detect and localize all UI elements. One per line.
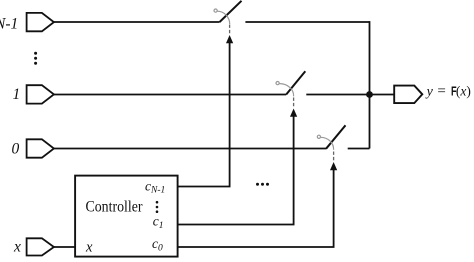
switch S0 dashed control link [333, 152, 335, 161]
wire switch S1 to bus and output [306, 94, 394, 96]
input port 0 [27, 139, 54, 157]
switch S1 control arrow [290, 109, 297, 117]
wire switch S(N-1) to bus [245, 21, 369, 23]
wire controller output cN-1 to switch S(N-1) [178, 42, 230, 187]
wire bus vertical [369, 21, 371, 148]
switch S(N-1) motion arc [217, 11, 229, 24]
svg-text:0: 0 [12, 140, 20, 157]
wire switch S0 to bus [348, 148, 370, 150]
svg-text:x: x [85, 239, 93, 255]
input port x [27, 238, 54, 255]
node: bus junction at output tap [366, 91, 373, 98]
wire controller output c0 to switch S0 [178, 169, 334, 247]
switch S0 motion arc [321, 137, 334, 150]
svg-text:1: 1 [13, 86, 21, 103]
output port y [394, 86, 422, 104]
wire input N-1 to switch S(N-1) [54, 21, 220, 23]
switch S(N-1) control arrow [226, 35, 233, 43]
wire input 0 to switch S0 [54, 148, 327, 150]
switch S1 dashed control link [293, 98, 295, 108]
switch S1 pole circle [276, 82, 279, 85]
vertical ellipsis between inputs [34, 52, 37, 65]
svg-text:=: = [437, 83, 445, 99]
input port 1 [27, 85, 54, 103]
switch S1 motion arc [279, 84, 293, 97]
vertical ellipsis inside controller [156, 201, 159, 213]
switch S1 blade [286, 71, 305, 94]
switch S0 control arrow [330, 162, 337, 170]
input port N-1 [27, 13, 54, 31]
svg-text:(x): (x) [456, 84, 471, 99]
svg-text:y: y [425, 85, 434, 100]
horizontal ellipsis between control wires [256, 183, 269, 186]
svg-text:x: x [13, 239, 21, 256]
wire controller output c1 to switch S1 [178, 116, 294, 225]
switch S(N-1) blade [220, 1, 242, 22]
switch S(N-1) pole circle [214, 9, 217, 12]
svg-text:Controller: Controller [86, 198, 144, 215]
wire input x to controller [54, 246, 76, 248]
switch S(N-1) dashed control link [229, 25, 231, 34]
controller U1 box [75, 176, 178, 257]
switch S0 blade [326, 125, 346, 149]
svg-text:N-1: N-1 [0, 15, 18, 32]
switch S0 pole circle [317, 135, 320, 138]
wire input 1 to switch S1 [54, 94, 287, 96]
